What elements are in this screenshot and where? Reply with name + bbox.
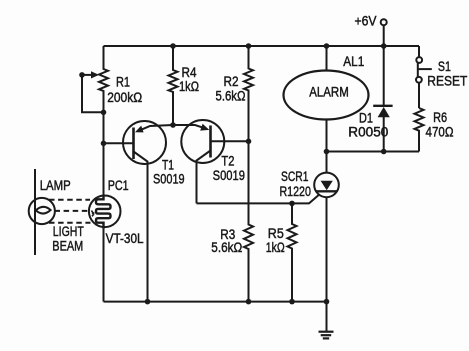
junction R5 top / gate node <box>289 201 295 207</box>
svg-text:S0019: S0019 <box>153 171 185 186</box>
svg-text:ALARM: ALARM <box>309 84 349 99</box>
svg-text:AL1: AL1 <box>343 54 364 69</box>
wire anode rail D1 R6 to SCR <box>327 151 420 153</box>
switch S1 <box>418 46 420 57</box>
junction R2 top <box>246 43 252 49</box>
resistor R5 <box>288 203 297 301</box>
resistor R4 <box>169 46 178 125</box>
svg-text:VT-30L: VT-30L <box>106 231 144 246</box>
T1 base wire <box>104 142 134 144</box>
diode D1 <box>383 46 385 107</box>
wire PC1 to bottom rail <box>103 229 105 302</box>
svg-text:+6V: +6V <box>355 14 377 29</box>
T2 emitter wire <box>197 151 211 204</box>
T2 collector wire <box>211 140 249 142</box>
junction T1 base node <box>101 141 107 147</box>
svg-text:R0050: R0050 <box>348 124 388 139</box>
wire top supply rail <box>104 45 420 47</box>
lamp <box>29 198 55 224</box>
ground <box>326 302 328 332</box>
svg-text:S1: S1 <box>438 59 451 74</box>
resistor R6 <box>415 108 424 152</box>
junction R4 top <box>170 43 176 49</box>
resistor R2 <box>244 46 253 141</box>
junction alarm top <box>324 43 330 49</box>
svg-text:5.6kΩ: 5.6kΩ <box>211 240 242 255</box>
svg-text:5.6kΩ: 5.6kΩ <box>216 88 246 103</box>
svg-text:R2: R2 <box>224 74 239 89</box>
svg-text:SCR1: SCR1 <box>281 169 309 184</box>
svg-text:200kΩ: 200kΩ <box>107 90 142 105</box>
svg-text:R6: R6 <box>433 110 447 125</box>
PC1 light arrow mark <box>92 211 94 217</box>
junction R3 bottom <box>246 299 252 305</box>
svg-text:470Ω: 470Ω <box>426 124 454 139</box>
svg-text:LAMP: LAMP <box>40 178 71 193</box>
svg-text:BEAM: BEAM <box>52 239 83 254</box>
potentiometer R1 <box>99 46 108 112</box>
terminal +6V <box>381 19 387 25</box>
svg-text:S0019: S0019 <box>213 168 245 183</box>
svg-text:T1: T1 <box>162 158 174 173</box>
svg-text:R5: R5 <box>268 226 284 241</box>
SCR1 <box>326 152 328 173</box>
junction ground node <box>324 299 330 305</box>
junction R4 bottom emitters node <box>170 122 176 128</box>
wire bottom rail <box>104 301 327 303</box>
lamp stand wire <box>34 169 36 255</box>
svg-text:RESET: RESET <box>427 74 467 89</box>
T2 base wire with arrow <box>173 125 204 128</box>
svg-text:R1: R1 <box>116 75 130 90</box>
svg-text:T2: T2 <box>221 154 234 169</box>
junction T1 collector bottom <box>145 299 151 305</box>
junction T2 collector to R2 branch <box>246 139 252 145</box>
wire left branch R1 to T1 base / PC1 <box>103 112 105 195</box>
svg-text:1kΩ: 1kΩ <box>179 79 199 94</box>
SCR cathode wire <box>326 197 328 301</box>
svg-text:1kΩ: 1kΩ <box>266 240 285 255</box>
svg-text:LIGHT: LIGHT <box>53 224 84 239</box>
R1 wiper arrow <box>82 74 93 76</box>
T1 emitter wire with arrow <box>140 125 173 130</box>
junction SCR anode node <box>324 149 330 155</box>
resistor R3 <box>244 141 253 301</box>
wire T2 emitter to SCR gate <box>197 195 319 203</box>
junction R1 wiper bottom <box>101 110 107 116</box>
junction D1 top <box>381 43 387 49</box>
svg-text:D1: D1 <box>359 110 373 125</box>
junction R5 bottom <box>289 299 295 305</box>
wire alarm top lead <box>326 46 328 71</box>
junction R1 wiper top <box>79 72 85 78</box>
light beam dashed rays <box>49 199 90 201</box>
wire alarm bottom lead <box>326 119 328 151</box>
wire +6V drop <box>383 25 385 46</box>
wire R1 wiper loop <box>82 75 104 112</box>
alarm AL1 <box>284 71 369 120</box>
svg-text:PC1: PC1 <box>108 178 129 193</box>
junction D1 bottom <box>381 149 387 155</box>
T1 collector wire <box>134 152 148 302</box>
svg-text:R1220: R1220 <box>279 184 311 199</box>
transistor T1 <box>123 121 166 164</box>
svg-text:R4: R4 <box>182 65 197 80</box>
photocell PC1 <box>89 196 121 228</box>
transistor T2 <box>181 120 224 163</box>
lamp lens <box>36 207 51 214</box>
